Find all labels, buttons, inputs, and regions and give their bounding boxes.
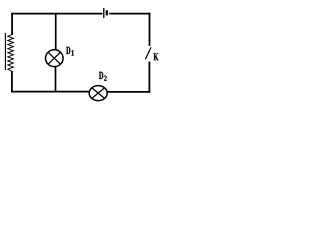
wire right vertical lower segment <box>148 62 150 93</box>
switch K lever <box>145 47 151 59</box>
lamp D1 circle <box>46 50 64 67</box>
lamp D1 cross <box>48 52 60 64</box>
resistor R zigzag <box>8 34 14 71</box>
wire bottom-left horizontal segment <box>11 91 89 93</box>
wire middle branch lower vertical <box>55 67 57 93</box>
wire top-right horizontal segment <box>109 13 150 15</box>
wire bottom-right horizontal segment <box>107 91 150 93</box>
wire top-left horizontal segment <box>11 13 102 15</box>
label K <box>154 53 159 60</box>
lamp D2 cross <box>92 88 105 99</box>
wire right vertical upper segment <box>149 13 151 46</box>
battery B1 long positive plate <box>103 8 105 18</box>
wire middle branch upper vertical <box>55 13 57 51</box>
lamp D2 circle <box>89 86 107 101</box>
label D2 <box>99 72 103 79</box>
label D1 <box>66 47 70 54</box>
wire left vertical upper segment <box>11 13 13 35</box>
battery B1 short thick negative plate <box>106 10 108 15</box>
resistor slider bar <box>4 33 6 70</box>
wire left vertical lower segment <box>11 71 13 93</box>
